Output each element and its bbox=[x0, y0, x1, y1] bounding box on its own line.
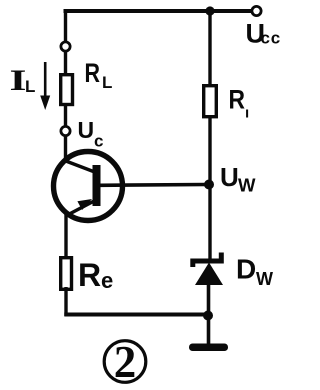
arrow IL (current direction) bbox=[44, 62, 47, 98]
zener diode DW cathode bar bbox=[193, 253, 222, 268]
transistor emitter arrow (PNP, pointing to base) bbox=[77, 199, 92, 210]
wire: RL to Uc terminal bbox=[64, 104, 67, 127]
wire: R1 down to zener bbox=[208, 116, 211, 259]
svg-text:c: c bbox=[94, 132, 103, 151]
wire: Ucc rail down to R1 bbox=[208, 11, 211, 86]
svg-text:U: U bbox=[220, 162, 239, 192]
wire: top-left vertical drop bbox=[64, 9, 67, 43]
wire: emitter down to Re bbox=[64, 212, 67, 258]
figure number badge 2 bbox=[104, 341, 146, 383]
svg-text:W: W bbox=[256, 269, 273, 289]
resistor R1 bbox=[204, 86, 217, 117]
transistor collector diagonal bbox=[65, 161, 97, 173]
wire: Uc to transistor collector bbox=[64, 136, 67, 163]
svg-text:ı: ı bbox=[245, 105, 249, 122]
junction dot top rail bbox=[205, 6, 214, 15]
wire: bottom horizontal rail bbox=[64, 313, 209, 317]
wire: top horizontal rail bbox=[64, 9, 254, 13]
transistor base bar bbox=[93, 165, 101, 206]
svg-text:U: U bbox=[78, 117, 95, 143]
svg-text:e: e bbox=[101, 268, 113, 293]
ground bbox=[189, 344, 228, 352]
svg-text:R: R bbox=[229, 85, 246, 115]
wire: zener to ground bbox=[207, 283, 211, 345]
svg-text:R: R bbox=[85, 58, 101, 88]
svg-text:L: L bbox=[25, 77, 35, 96]
svg-text:D: D bbox=[236, 254, 256, 285]
wire: Re down to bottom rail bbox=[64, 287, 67, 316]
resistor Re bbox=[61, 258, 72, 290]
terminal circle Uc bbox=[61, 126, 70, 135]
wire: base lead to UW node bbox=[100, 183, 206, 187]
wire: terminal to RL bbox=[64, 51, 67, 75]
junction dot bottom rail bbox=[203, 311, 213, 321]
transistor emitter diagonal bbox=[67, 201, 96, 216]
resistor RL bbox=[61, 75, 73, 105]
svg-text:2: 2 bbox=[114, 337, 137, 387]
svg-text:L: L bbox=[102, 73, 112, 92]
svg-text:cc: cc bbox=[261, 29, 282, 48]
svg-text:R: R bbox=[78, 257, 101, 293]
terminal circle Ucc bbox=[252, 6, 261, 15]
transistor Q1 circle bbox=[54, 152, 123, 221]
junction dot / node UW bbox=[204, 180, 214, 190]
zener diode DW triangle bbox=[195, 263, 223, 286]
svg-text:I: I bbox=[10, 64, 27, 97]
terminal circle (upper left, input) bbox=[61, 42, 70, 51]
svg-text:W: W bbox=[238, 175, 256, 196]
